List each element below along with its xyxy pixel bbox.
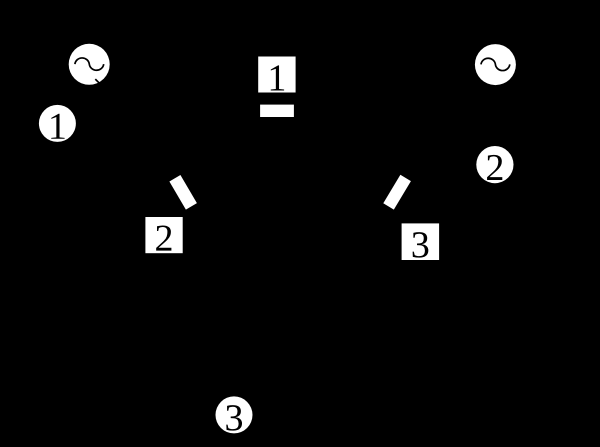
line label box 2 xyxy=(145,217,182,253)
circuit breaker on line 2-3 (rotated) xyxy=(383,175,411,210)
wire stub from G1 to bus 1 (visible over circle) xyxy=(95,79,100,84)
generator number circle 2 xyxy=(476,146,513,183)
line label box 3 xyxy=(402,223,440,260)
generator number circle 3 xyxy=(216,396,253,433)
AC source G1 (top-left sinusoidal source) xyxy=(69,44,110,85)
circuit breaker on line 1-2 (horizontal) xyxy=(260,105,294,117)
circuit breaker on line 1-3 (rotated) xyxy=(169,175,197,210)
line label box 1 xyxy=(258,57,295,93)
generator number circle 1 xyxy=(39,105,76,142)
AC source G2 (top-right sinusoidal source) xyxy=(475,44,516,85)
